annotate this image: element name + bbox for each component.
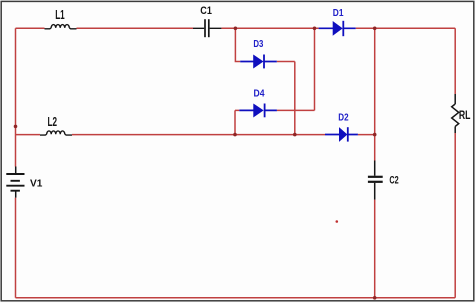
inductor L1 <box>45 25 77 29</box>
diode D4 <box>239 104 277 118</box>
diode D2 <box>325 127 358 141</box>
node junction bottom bus / C2 branch <box>373 296 377 300</box>
svg-text:D4: D4 <box>254 88 265 100</box>
node junction L2 row / D3 cathode <box>293 133 297 137</box>
wire top bus <box>16 27 456 29</box>
wire right vertical (RL branch) <box>454 28 456 298</box>
svg-text:L2: L2 <box>48 114 58 129</box>
node junction top bus / D4 branch <box>313 27 317 31</box>
node junction L2 row / C2 branch <box>373 133 377 137</box>
svg-text:D1: D1 <box>333 7 344 19</box>
diode D1 <box>319 21 356 36</box>
node junction left bus stub <box>14 125 18 129</box>
svg-text:V1: V1 <box>30 178 43 190</box>
svg-text:RL: RL <box>459 108 471 122</box>
wire D3 branch drop from top bus <box>235 28 240 61</box>
diode D3 <box>240 55 277 69</box>
svg-text:C1: C1 <box>200 5 212 17</box>
wire left vertical bus <box>15 28 17 298</box>
wire vertical D4 anode to L2 row <box>235 110 239 134</box>
node stray dot <box>336 220 339 223</box>
node junction top bus / D3 branch <box>234 27 238 31</box>
wire D4 row right segment <box>277 109 315 111</box>
wire bottom bus <box>16 297 456 299</box>
wire vertical D3 cathode to L2 row <box>294 62 296 135</box>
node junction top bus / C2 branch <box>373 27 377 31</box>
svg-text:C2: C2 <box>389 175 398 187</box>
battery V1 <box>6 167 24 198</box>
svg-text:L1: L1 <box>55 7 64 22</box>
svg-text:D3: D3 <box>253 39 263 50</box>
capacitor C2 <box>368 161 383 200</box>
wire L2 row <box>16 134 375 136</box>
wire D3 row right segment <box>277 61 295 63</box>
wire vertical top bus to D4 cathode <box>314 28 316 110</box>
inductor L2 <box>40 131 72 135</box>
wire vertical C2 branch <box>374 28 376 298</box>
capacitor C1 <box>193 19 221 37</box>
resistor RL <box>452 94 459 133</box>
svg-text:D2: D2 <box>338 113 349 124</box>
node junction L2 row / D4 anode <box>233 133 237 137</box>
